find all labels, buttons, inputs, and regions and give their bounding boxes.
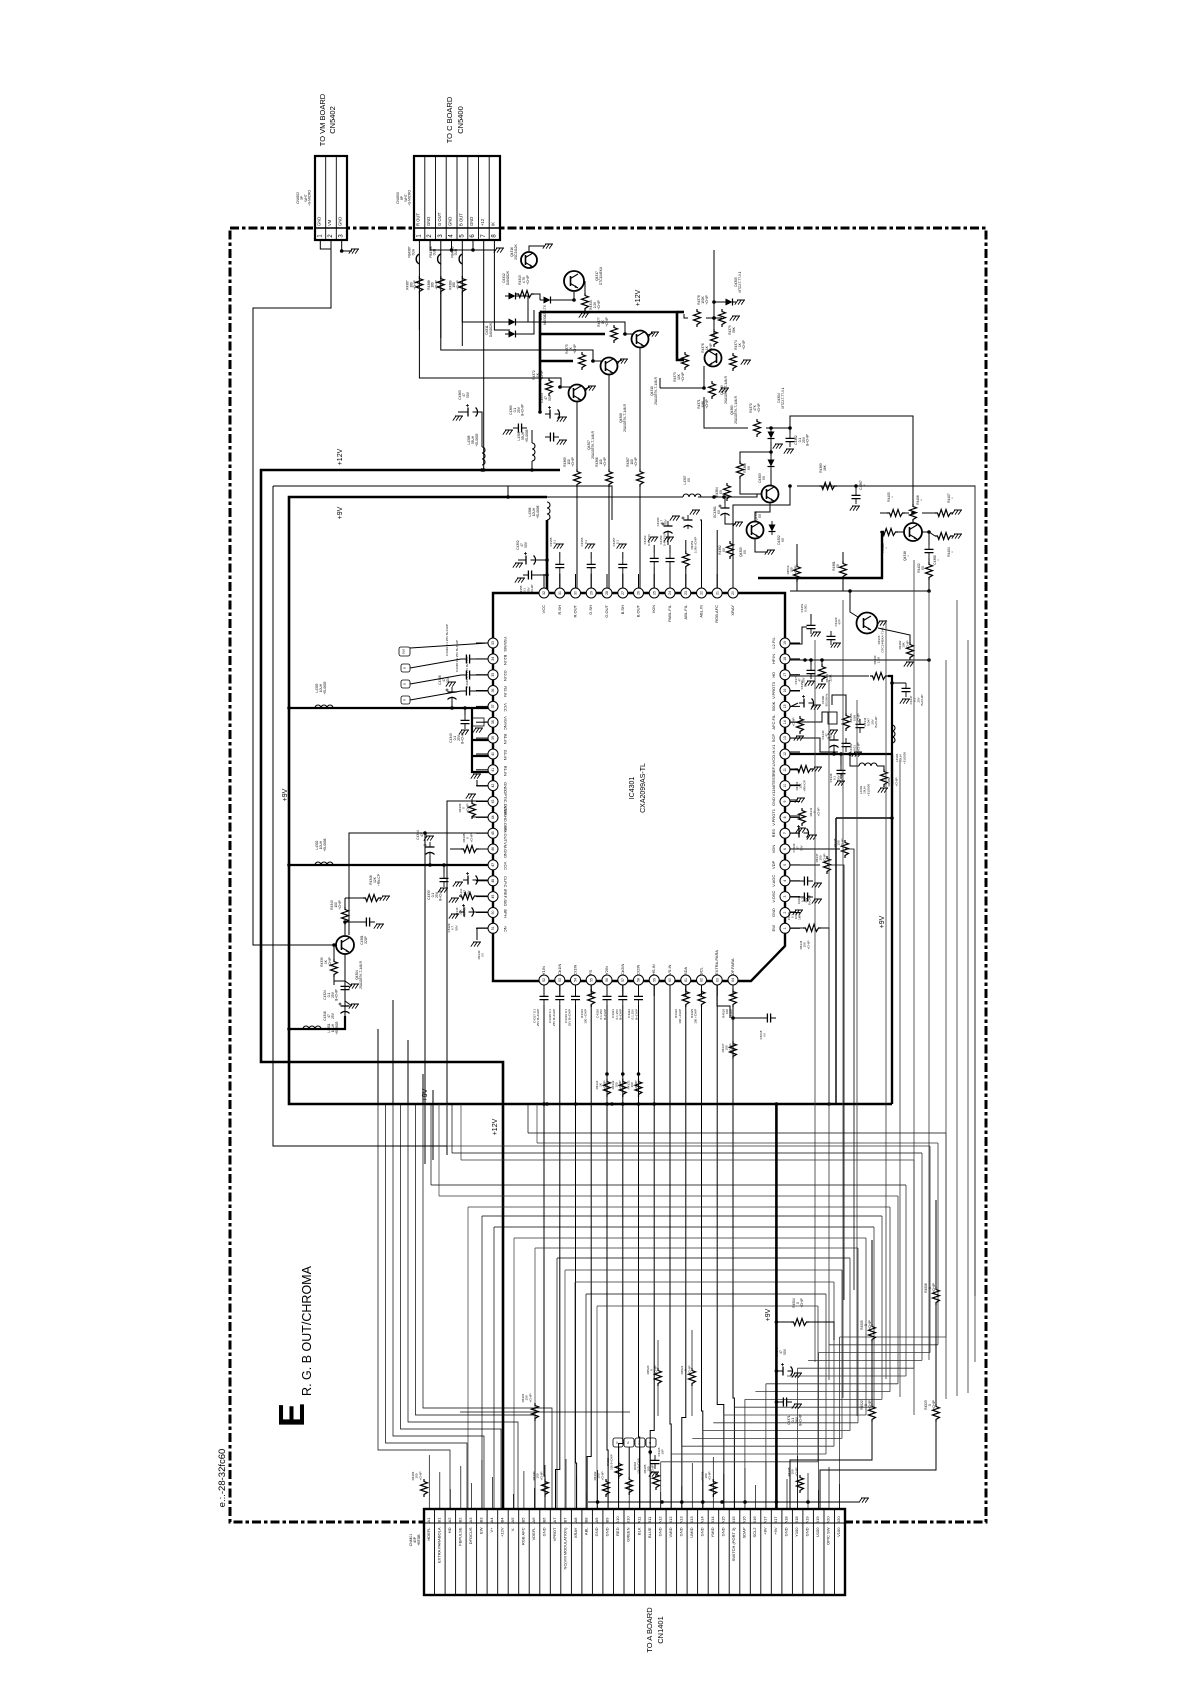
resistor R4506 0 CHIP: [933, 1287, 940, 1305]
ground pin42 GND: [477, 780, 488, 786]
wire +9V to IC VCC pin (thick): [546, 520, 549, 593]
CN4401 pin A4 V+: [489, 1517, 494, 1533]
resistor R4335: [698, 989, 705, 1007]
IC pin 50 BPH: [476, 908, 508, 918]
capacitor C4954 47 50V: [545, 406, 560, 419]
svg-text:EW: EW: [478, 1527, 483, 1534]
resistor R4388 180: [437, 276, 444, 294]
CN4401 pin A17 +8V: [763, 1516, 768, 1535]
wire XRAY riser: [733, 486, 790, 588]
svg-text:GND: GND: [338, 217, 343, 226]
resistor R4367 100: [637, 469, 644, 487]
svg-text:DAN202K: DAN202K: [489, 322, 493, 337]
ground C4363: [453, 416, 463, 421]
svg-text:YMID: YMID: [710, 1527, 715, 1537]
svg-text:2SA1037K-T-146-R: 2SA1037K-T-146-R: [591, 430, 595, 459]
svg-text:YS/VMS: YS/VMS: [503, 636, 508, 651]
node box G: [401, 680, 410, 688]
svg-text:SCL: SCL: [699, 966, 704, 975]
svg-text:B13: B13: [689, 1516, 694, 1524]
wire R4505 column: [871, 1240, 873, 1324]
svg-text:B+CHIP: B+CHIP: [634, 1009, 638, 1020]
capacitor C4360 4.7 50V: [662, 521, 673, 535]
transistor Q4307 2SA1037K-T-146-R: [569, 385, 586, 402]
svg-text:+CHIP: +CHIP: [932, 1283, 936, 1292]
power thick stub Q4307: [539, 386, 542, 389]
svg-text:B+CHIP: B+CHIP: [619, 1009, 623, 1020]
svg-text:+RN-OP: +RN-OP: [802, 780, 806, 791]
svg-text:IKIN: IKIN: [651, 605, 656, 613]
capacitor C4318: [555, 991, 564, 1005]
svg-text:B OUT: B OUT: [458, 213, 463, 226]
capacitor C4346 0.1 25V B-CHIP: [461, 687, 475, 696]
IC pin 31 R.SH: [555, 574, 565, 615]
power VCC pin37 branch (thick): [289, 707, 493, 709]
CN4401 pin B13 UMID: [689, 1516, 694, 1538]
svg-text:GND: GND: [542, 1527, 547, 1536]
svg-text:2SA1037K-T-146-R: 2SA1037K-T-146-R: [359, 960, 363, 989]
diode D4303 XX: [768, 456, 775, 470]
svg-text:B20: B20: [836, 1516, 841, 1524]
wire mesh right drops level1: [945, 1133, 947, 1337]
IC pin 6 VDN: [771, 844, 800, 854]
svg-text:C4348 0.1 25V B+CHIP: C4348 0.1 25V B+CHIP: [455, 640, 459, 672]
svg-text:14: 14: [783, 720, 787, 724]
svg-text:VDEFL: VDEFL: [531, 1527, 536, 1541]
svg-text:18K: 18K: [823, 464, 827, 471]
svg-text:25: 25: [653, 591, 657, 595]
wire Q4318 links: [880, 512, 887, 514]
capacitor C4344 0.047 26V: [856, 719, 865, 733]
svg-text:ABL.FIL: ABL.FIL: [683, 604, 688, 619]
resistor R4518: [730, 989, 737, 1007]
power +9V rail (thick): [289, 497, 892, 1104]
svg-text:100 B+CHIP: 100 B+CHIP: [610, 1454, 614, 1470]
IC pin 38 VSYNC: [476, 716, 508, 730]
svg-text:B7: B7: [563, 1517, 568, 1523]
svg-text:RES: RES: [771, 829, 776, 838]
resistor R4387 180: [416, 276, 423, 294]
svg-text:50V: 50V: [548, 394, 552, 401]
IC pin 52 Y1IN: [539, 966, 549, 996]
svg-text:HDEFL: HDEFL: [426, 1527, 431, 1541]
svg-text:Cb2IN: Cb2IN: [620, 964, 625, 975]
IC pin 60 VS.IN: [665, 964, 675, 996]
svg-text:B17: B17: [773, 1516, 778, 1524]
IC pin 32 VCC: [539, 574, 549, 613]
wire EXTRA PARA jog to C4618: [717, 985, 730, 1018]
svg-text:GND: GND: [605, 1527, 610, 1536]
resistor R4332 100: [619, 1079, 626, 1097]
svg-text:44: 44: [491, 815, 495, 819]
svg-text:+CHIP: +CHIP: [338, 900, 342, 909]
resistor R4396 0 CHIP: [469, 801, 476, 819]
svg-text:100 +CHIP: 100 +CHIP: [584, 1009, 588, 1024]
svg-text:A19: A19: [805, 1516, 810, 1524]
resistor R4304 100 B-CHIP: [626, 1477, 633, 1495]
svg-text:47P: 47P: [838, 619, 842, 624]
svg-text:+CHIP: +CHIP: [634, 1081, 638, 1090]
ferrite bead FB4389: [459, 254, 462, 264]
wire mesh nested corners right: [840, 1336, 946, 1338]
svg-text:+CHIP: +CHIP: [571, 457, 575, 466]
wire left bundle v5: [432, 1090, 434, 1160]
IC pin 2 GND: [771, 908, 800, 918]
wire pin10 V11M stub: [790, 784, 800, 786]
svg-text:0.47 16V: 0.47 16V: [647, 534, 651, 546]
svg-text:7: 7: [783, 832, 787, 834]
CN4401 pin A18 GND: [784, 1516, 789, 1537]
svg-text:25V B+CHIP: 25V B+CHIP: [536, 1009, 540, 1026]
IC pin 19 L2.FIL: [771, 637, 800, 649]
resistor R4395 0 CHIP: [461, 846, 479, 853]
IC pin 5 VDP: [771, 860, 800, 870]
IC pin 44 VM/SHO.OFF: [476, 806, 508, 831]
svg-text:V.PROT3: V.PROT3: [771, 681, 776, 699]
capacitor C4338 0.1 26V B-CHIP: [837, 765, 846, 779]
svg-text:+CHIP: +CHIP: [905, 641, 909, 650]
svg-text:BLK: BLK: [638, 1440, 641, 1445]
IC pin 29 G.SH: [586, 574, 596, 615]
inductor L4305 10UH EL0605: [315, 705, 333, 708]
CN4401 pin A1 HDEFL: [426, 1517, 431, 1541]
capacitor C4350 0.1: [807, 665, 816, 679]
svg-text:GND: GND: [721, 1527, 726, 1536]
CN4401 pin B14 YMID: [710, 1516, 715, 1538]
wire ABL.IN up: [700, 520, 702, 588]
resistor R4344 100 CHIP: [803, 925, 821, 932]
svg-text:VM: VM: [327, 219, 332, 226]
svg-text:37: 37: [491, 704, 495, 708]
capacitor C4330 0.1 100V: [799, 893, 813, 902]
svg-text:A13: A13: [678, 1516, 683, 1524]
svg-text:+S-MICRO: +S-MICRO: [308, 190, 312, 206]
wire R4506 column: [935, 1200, 937, 1287]
svg-text:RGB AFC: RGB AFC: [521, 1527, 526, 1545]
svg-text:+EL0605: +EL0605: [335, 1021, 339, 1034]
svg-text:+EL0606: +EL0606: [902, 752, 906, 764]
svg-text:0.1: 0.1: [616, 540, 620, 545]
svg-text:DAN202K: DAN202K: [506, 270, 510, 285]
svg-text:VPROT: VPROT: [552, 1527, 557, 1541]
IC pin 27 B.SH: [618, 574, 628, 614]
IC pin 9 GND: [771, 797, 800, 807]
wire Q4316 emitter ground: [529, 246, 545, 251]
IC pin 14 AFC.FIL: [771, 714, 800, 730]
svg-text:+CHIP: +CHIP: [528, 1394, 532, 1403]
node box R bottom: [613, 1438, 623, 1447]
svg-text:0.1: 0.1: [553, 540, 557, 545]
svg-text:+9V: +9V: [773, 1527, 778, 1535]
IC pin 30 R.OUT: [571, 574, 581, 617]
svg-text:+CHIP: +CHIP: [894, 778, 898, 787]
svg-text:A9: A9: [594, 1517, 599, 1523]
wire left bundle v4: [422, 1074, 424, 1104]
svg-text:G OUT: G OUT: [437, 212, 442, 226]
svg-text:B: B: [403, 667, 407, 669]
svg-text:60: 60: [668, 978, 672, 982]
wire pin17 HD net: [790, 675, 869, 677]
wire RGB.AFC up: [716, 530, 718, 588]
CN4401 pin A19 GND: [805, 1516, 810, 1537]
svg-text:B18: B18: [794, 1516, 799, 1524]
wire IC bottom pin drop: [716, 985, 718, 1104]
svg-text:SWITCH (PORT 3): SWITCH (PORT 3): [731, 1527, 736, 1562]
wire Q4307 collector down: [576, 402, 578, 470]
power VCC pin47 branch (thick): [289, 864, 493, 866]
wire pin3 V.OSC: [790, 896, 799, 898]
svg-text:B+CHIP: B+CHIP: [874, 717, 878, 728]
svg-text:R.SH: R.SH: [557, 605, 562, 615]
IC pin 36 R2-IN: [476, 686, 508, 697]
wire pin11 IREF net: [790, 768, 795, 770]
IC pin 37 VCC: [476, 701, 508, 711]
connector CN4502 (TO VM BOARD CN5402): [315, 156, 347, 240]
svg-text:24: 24: [668, 591, 672, 595]
svg-text:+EL0606: +EL0606: [323, 838, 327, 851]
svg-text:+CHIP: +CHIP: [653, 1366, 657, 1375]
svg-text:CXA2099AS-TL: CXA2099AS-TL: [640, 763, 647, 813]
svg-text:62: 62: [700, 978, 704, 982]
svg-text:Y100: Y100: [794, 1527, 799, 1537]
svg-text:B11: B11: [647, 1516, 652, 1524]
svg-text:16: 16: [783, 689, 787, 693]
svg-text:C4346 0.1 25V B+CHIP: C4346 0.1 25V B+CHIP: [465, 656, 469, 688]
capacitor C4380: [925, 544, 934, 558]
capacitor C4352 47 50V: [521, 552, 536, 565]
capacitor C4319: [571, 991, 580, 1005]
svg-text:3.3M +CHIP: 3.3M +CHIP: [694, 537, 698, 553]
capacitor C4360 0.022: [545, 433, 559, 442]
svg-text:SCL2: SCL2: [752, 1527, 757, 1538]
svg-text:50: 50: [491, 911, 495, 915]
wire left bundle v1: [377, 1029, 379, 1104]
svg-text:UMID: UMID: [689, 1527, 694, 1537]
wire CN4500 gnd pins: [430, 240, 496, 250]
CN4401 pin A6 VDEFL: [531, 1517, 536, 1541]
IC pin 22 ABL.IN: [697, 574, 707, 618]
svg-text:B3: B3: [478, 1517, 483, 1523]
svg-text:CN5400: CN5400: [456, 106, 465, 134]
capacitor C4357 row G.SH: [587, 559, 596, 573]
capacitor C4954 47 50V thick node: [538, 410, 542, 414]
svg-text:+CHIP: +CHIP: [800, 1298, 804, 1307]
wire R4366 to IC: [608, 487, 610, 588]
svg-text:0.1: 0.1: [584, 540, 588, 545]
svg-text:50V: 50V: [801, 677, 805, 682]
transistor Q4315 DTC144EKA-T146: [857, 613, 878, 634]
resistor R4302 100: [603, 1479, 610, 1497]
svg-text:VM.GND: VM.GND: [503, 842, 508, 858]
svg-text:53: 53: [558, 978, 562, 982]
svg-text:GND: GND: [805, 1527, 810, 1536]
svg-text:EXTRA.PARA: EXTRA.PARA: [714, 950, 719, 975]
IC pin 42 GND: [476, 781, 508, 792]
thin line from +9V elbow: [273, 486, 612, 520]
transistor Q4306 XX: [762, 486, 779, 503]
wire B chain to transistor cluster: [462, 294, 625, 334]
svg-text:B4: B4: [499, 1517, 504, 1523]
capacitor C4329 47P: [827, 631, 836, 645]
svg-text:50V: 50V: [466, 391, 470, 398]
svg-text:B: B: [648, 1441, 652, 1443]
IC pin 43 OPTIC.DCTR: [476, 790, 508, 815]
svg-text:B2-IN: B2-IN: [503, 655, 508, 665]
wire +9V thin extension to right cluster: [547, 496, 680, 498]
ground Q4308: [618, 359, 628, 364]
wire thick to pins 39/40/41: [472, 708, 493, 772]
wire HD thick corner: [888, 676, 892, 754]
wire pin12 VCO thick rail: [790, 753, 892, 755]
svg-text:2.2K: 2.2K: [877, 657, 881, 663]
capacitor C4333 0.1 25V B-CHIP: [440, 873, 449, 887]
resistor R4402 XX: [926, 562, 933, 580]
svg-text:38: 38: [491, 720, 495, 724]
CN4401 pin A9 GND: [594, 1517, 599, 1537]
IC pin 23 ABL.FIL: [681, 574, 691, 619]
wire R4367 to IC: [639, 487, 641, 588]
svg-text:G2-IN: G2-IN: [503, 670, 508, 681]
IC pin 11 IREF.U: [771, 763, 800, 776]
capacitor C4332 0.1 26V: [799, 877, 813, 886]
svg-text:L2.FIL: L2.FIL: [771, 637, 776, 649]
svg-text:+CHIP: +CHIP: [932, 1400, 936, 1409]
svg-text:IREF-SIG: IREF-SIG: [503, 889, 508, 906]
svg-text:V-: V-: [510, 1527, 515, 1531]
CN4401 pin B16 SCL2: [752, 1516, 757, 1538]
svg-text:+12V: +12V: [635, 289, 642, 306]
capacitor C4324 0.1 25V B-CHIP: [341, 981, 350, 995]
svg-text:+12V: +12V: [492, 1118, 499, 1135]
svg-text:11: 11: [783, 768, 787, 772]
svg-text:MA3082M-TX: MA3082M-TX: [543, 304, 547, 325]
svg-text:SDAP: SDAP: [742, 1527, 747, 1538]
svg-text:B1-IN: B1-IN: [503, 734, 508, 744]
svg-text:GND: GND: [771, 908, 776, 917]
resistor R4406: [910, 504, 917, 522]
IC pin 26 B.OUT: [634, 574, 644, 617]
capacitor C4336 47 50V: [794, 825, 809, 838]
svg-text:48: 48: [491, 879, 495, 883]
node box BLK bottom: [635, 1438, 645, 1447]
ground R4314: [579, 313, 589, 318]
svg-text:A20: A20: [826, 1516, 831, 1524]
IC pin 25 IKIN: [649, 574, 659, 613]
svg-text:+CHIP: +CHIP: [794, 1468, 798, 1477]
svg-text:DTC114EKA: DTC114EKA: [599, 266, 603, 285]
svg-text:15: 15: [783, 704, 787, 708]
resistor R4504 0 CHIP: [791, 1319, 809, 1326]
svg-text:RGB.AFC: RGB.AFC: [714, 605, 719, 623]
svg-text:+9V: +9V: [282, 788, 289, 801]
wire IC bottom pin drop: [669, 985, 671, 1104]
svg-text:16P: 16P: [661, 1449, 665, 1454]
power branch L4301 (thick): [289, 1016, 345, 1029]
svg-text:BLK: BLK: [636, 1527, 641, 1535]
svg-text:25V B+CHIP: 25V B+CHIP: [552, 1009, 556, 1026]
wire pin43 OPTIC.DCTR: [447, 801, 488, 1155]
resistor R4301 100 CHIP: [460, 1411, 630, 1413]
wire Q4310 collector down: [639, 348, 641, 470]
svg-text:0.47 16V: 0.47 16V: [663, 534, 667, 546]
svg-text:500K: 500K: [771, 701, 776, 711]
resistor R4401 220K: [819, 664, 826, 682]
IC pin 45 VM.OUT: [476, 826, 508, 842]
wire +9V drop to connector B17 (thick): [775, 1104, 778, 1509]
CN4401 pin B11 BLUE: [647, 1516, 652, 1538]
capacitor C4351 0.001: [807, 620, 816, 634]
IC pin 48 CLP.C: [476, 876, 508, 888]
resistor R4379 58K: [719, 309, 726, 327]
svg-text:TO A BOARD: TO A BOARD: [645, 1607, 654, 1653]
svg-text:CN1401: CN1401: [656, 1616, 665, 1644]
IC pin 63 EXTRA.PARA: [712, 950, 722, 996]
wire left bundle v3: [407, 1040, 409, 1104]
resistor R4382 10K: [907, 642, 914, 660]
svg-text:+CHIP: +CHIP: [600, 1472, 604, 1481]
svg-text:B19: B19: [815, 1516, 820, 1524]
capacitor C4377 47 50V: [799, 695, 814, 708]
svg-text:+CHIP: +CHIP: [708, 1472, 712, 1481]
diode D4313 MA3082M-TX: [540, 297, 554, 304]
resistor R4371 6.8K: [709, 381, 716, 399]
CN4401 pin A3 DFOCUS: [468, 1517, 473, 1545]
capacitor C4367: [852, 490, 861, 504]
svg-text:RED: RED: [615, 1527, 620, 1536]
resistor R4519 100 CHIP: [794, 564, 801, 582]
IC pin 1 EW: [771, 923, 800, 933]
svg-text:+12V: +12V: [337, 448, 344, 465]
wire pin4 V.AGC: [790, 880, 799, 882]
svg-text:VM.OUT: VM.OUT: [503, 826, 508, 842]
svg-text:+9V: +9V: [765, 1308, 772, 1321]
svg-text:0UH: 0UH: [411, 248, 415, 255]
resistor R4364 10K RN-OP: [795, 766, 813, 773]
svg-text:+CHIP: +CHIP: [728, 1044, 732, 1053]
IC pin 34 B2-IN: [476, 654, 508, 665]
CN4401 pin B6 GND: [542, 1517, 547, 1537]
transistor Q4308 2SA1037K-T-146-R: [601, 358, 618, 375]
svg-text:R: R: [615, 1441, 619, 1443]
CN4401 pin B17 +9V: [773, 1516, 778, 1535]
svg-text:G: G: [403, 683, 407, 685]
svg-text:30: 30: [574, 591, 578, 595]
wire pin5 VDP: [790, 864, 820, 866]
svg-text:R OUT: R OUT: [415, 213, 420, 226]
svg-text:+CHIP: +CHIP: [413, 280, 417, 289]
svg-text:B9: B9: [605, 1517, 610, 1523]
CN4401 pin B9 GND: [605, 1517, 610, 1537]
svg-text:EXTRA PARABOLA: EXTRA PARABOLA: [436, 1527, 441, 1563]
board outline border (dash-dot): [230, 228, 986, 1522]
svg-text:+12: +12: [480, 218, 485, 226]
resistor R4306 100: [710, 1479, 717, 1497]
wire pin18 HP.IN net: [790, 659, 929, 661]
svg-text:R: R: [403, 699, 407, 701]
svg-text:BLUE: BLUE: [647, 1527, 652, 1538]
CN4401 pin B20 V100: [836, 1516, 841, 1537]
transistor Q4304 2SA1037K-T-146-R: [336, 936, 354, 954]
ground Q4310: [649, 332, 659, 337]
svg-text:+CHIP: +CHIP: [418, 1472, 422, 1481]
IC pin 3 V.OSC: [771, 890, 800, 902]
svg-text:B12: B12: [668, 1516, 673, 1524]
resistor R4383 18K: [819, 483, 837, 490]
svg-text:GND: GND: [426, 217, 431, 226]
node box B: [401, 664, 410, 672]
capacitor C4362 0.1 25V B-CHIP: [786, 433, 795, 447]
svg-text:+CHIP: +CHIP: [742, 340, 746, 349]
